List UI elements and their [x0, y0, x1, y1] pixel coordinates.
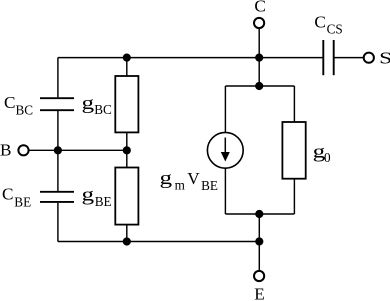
- wire: g0 branch lower: [293, 179, 295, 214]
- resistor g_BC: [115, 76, 138, 132]
- wire: g0 branch upper: [293, 86, 295, 122]
- capacitor C_BC: [40, 98, 74, 110]
- wire: S terminal wire: [334, 57, 364, 59]
- wire: E terminal vertical: [258, 214, 260, 271]
- node: junction dot top sub-rail: [255, 82, 263, 90]
- wire: C terminal vertical: [258, 28, 260, 86]
- svg-text:g: g: [82, 93, 95, 114]
- wire: current source branch upper: [224, 86, 226, 132]
- svg-text:C: C: [314, 12, 325, 31]
- svg-text:E: E: [254, 285, 264, 301]
- wire: bottom rail: [58, 241, 259, 243]
- wire: top sub-rail: [225, 85, 294, 87]
- wire: left vertical branch upper segment: [57, 58, 59, 98]
- current source gmVBE: [207, 132, 243, 168]
- wire: left vertical below C_BE: [57, 203, 59, 242]
- resistor g_0: [282, 122, 305, 179]
- wire: current source branch lower: [224, 168, 226, 214]
- wire: middle vertical g_BC to g_BE: [126, 132, 128, 167]
- svg-text:0: 0: [324, 150, 331, 165]
- node: junction dot B rail / left vertical: [54, 146, 62, 154]
- svg-text:BE: BE: [95, 194, 112, 209]
- terminal C: [254, 18, 264, 28]
- node: junction dot top rail / g branch: [123, 54, 131, 62]
- svg-text:C: C: [254, 0, 265, 16]
- wire: left vertical between C_BC and C_BE: [57, 111, 59, 191]
- node: junction dot bottom rail / g_BE branch: [123, 237, 131, 245]
- capacitor C_CS: [323, 40, 333, 75]
- svg-text:B: B: [0, 141, 11, 160]
- svg-text:C: C: [4, 93, 15, 112]
- node: junction dot B rail / g branch: [123, 146, 131, 154]
- terminal S: [364, 53, 374, 63]
- wire: B rail: [29, 149, 127, 151]
- node: junction dot top rail / C terminal: [255, 54, 263, 62]
- wire: middle vertical top rail to g_BC: [126, 58, 128, 76]
- svg-text:C: C: [2, 185, 13, 204]
- svg-text:BC: BC: [16, 103, 34, 118]
- node: junction dot bottom sub-rail: [255, 210, 263, 218]
- resistor g_BE: [115, 168, 138, 225]
- svg-text:m: m: [175, 178, 186, 193]
- wire: bottom sub-rail: [225, 213, 294, 215]
- svg-text:BC: BC: [94, 102, 112, 117]
- svg-text:S: S: [379, 49, 390, 68]
- svg-text:g: g: [160, 168, 173, 189]
- terminal E: [254, 271, 264, 281]
- terminal B: [18, 145, 28, 155]
- svg-text:BE: BE: [201, 178, 218, 193]
- wire: middle vertical g_BE to bottom rail: [126, 225, 128, 242]
- svg-text:BE: BE: [14, 194, 31, 209]
- svg-text:V: V: [187, 169, 200, 188]
- svg-text:g: g: [82, 185, 95, 206]
- wire: main top rail: [58, 57, 323, 59]
- capacitor C_BE: [40, 192, 74, 202]
- svg-text:CS: CS: [327, 21, 343, 36]
- node: junction dot bottom rail / E branch: [255, 237, 263, 245]
